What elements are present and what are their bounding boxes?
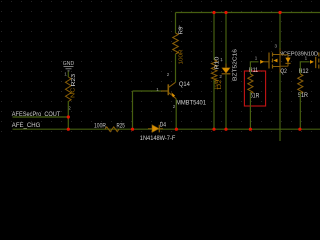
- junction Q2 drain/top rail: [278, 11, 281, 14]
- wire: [67, 72, 69, 78]
- svg-text:100R: 100R: [178, 49, 184, 64]
- wire: [175, 13, 177, 34]
- body diode: [280, 55, 288, 66]
- junction R10/AFE_CHG: [212, 128, 215, 131]
- resistor R10: [211, 13, 220, 130]
- resistor R11: [248, 60, 264, 129]
- wire: [213, 13, 215, 61]
- resistor R25: [94, 123, 125, 131]
- wire: [13, 128, 320, 130]
- wire: [13, 116, 69, 118]
- wire gate1: [250, 62, 258, 74]
- wire drain: [279, 13, 281, 50]
- mosfet Q2 NCEP039N10D: [255, 13, 318, 142]
- svg-text:Q2: Q2: [280, 69, 287, 75]
- source: [279, 67, 281, 74]
- wire: [67, 101, 69, 129]
- wire: [175, 54, 177, 82]
- svg-text:R23: R23: [71, 74, 77, 87]
- junction R11/AFE_CHG: [249, 128, 252, 131]
- wire: [299, 92, 301, 129]
- svg-text:R25: R25: [117, 123, 126, 129]
- zener D2: [217, 13, 239, 130]
- wire source down: [279, 73, 281, 141]
- svg-text:51R: 51R: [250, 94, 260, 100]
- svg-text:100R: 100R: [94, 123, 107, 129]
- junction Q14 base drop/AFE_CHG: [131, 128, 134, 131]
- node AFESecPro_COUT: [12, 111, 69, 118]
- wire base drop: [132, 91, 134, 129]
- wire emitter: [175, 99, 177, 129]
- junction R23/AFE_CHG: [67, 128, 70, 131]
- wire gate2: [300, 62, 309, 74]
- svg-text:D2: D2: [217, 80, 223, 90]
- svg-text:AFE_CHG: AFE_CHG: [12, 122, 41, 129]
- diode D4: [140, 123, 176, 142]
- junction D2/top rail: [224, 11, 227, 14]
- junction D2/AFE_CHG: [224, 128, 227, 131]
- junction Q14 emitter/AFE_CHG: [175, 128, 178, 131]
- svg-text:MMBT5401: MMBT5401: [176, 100, 207, 106]
- wire: [225, 13, 227, 68]
- ground: [63, 61, 74, 77]
- svg-text:NC: NC: [70, 87, 76, 98]
- junction R23/AFESecPro_COUT: [67, 115, 70, 118]
- svg-text:1N4148W-7-F: 1N4148W-7-F: [140, 136, 176, 141]
- svg-text:51R: 51R: [298, 93, 309, 99]
- svg-text:Q14: Q14: [179, 82, 191, 88]
- svg-text:BZT52C16: BZT52C16: [232, 49, 238, 81]
- resistor R9: [173, 13, 185, 83]
- wire: [225, 74, 227, 129]
- junction R12/AFE_CHG: [298, 128, 301, 131]
- svg-text:D4: D4: [160, 123, 167, 129]
- node AFE_CHG: [12, 122, 320, 129]
- resistor R23: [64, 72, 77, 111]
- fet body: [279, 49, 281, 55]
- transistor Q14: [156, 72, 206, 109]
- highlight box R11: [244, 71, 265, 106]
- wire base: [133, 90, 168, 92]
- gate pin: [264, 61, 270, 63]
- resistor R12 + gate2: [298, 53, 319, 130]
- wire top rail: [176, 12, 320, 14]
- wire: [213, 80, 215, 129]
- wire: [249, 92, 251, 129]
- junction R10/top rail: [212, 11, 215, 14]
